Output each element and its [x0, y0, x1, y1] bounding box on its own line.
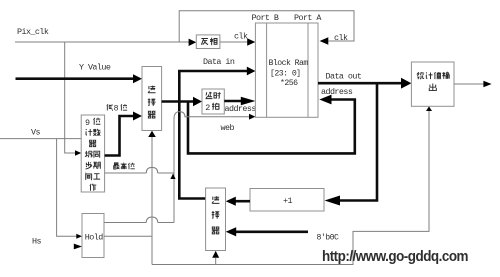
wire selector2 output link to vertical [178, 197, 206, 200]
wire selector U2 select from bottom [215, 258, 217, 265]
wire select vertical down from selector U1 [151, 137, 153, 265]
inverter box [196, 35, 220, 49]
counter text 场同 [85, 151, 92, 158]
wire data-in vertical thick [178, 71, 181, 199]
svg-text:Block Ram: Block Ram [269, 58, 309, 68]
wire +1 output thick [236, 200, 251, 203]
arrow into counter clk [75, 150, 81, 155]
label 最高位 [113, 163, 119, 169]
svg-text:Port B: Port B [252, 13, 279, 23]
arrow into +1 box [325, 196, 341, 206]
svg-text:Hold: Hold [85, 232, 103, 242]
wire Vs branch down to Hold [57, 139, 77, 237]
counter text 间工 [86, 173, 92, 180]
wire Hold middle output [104, 235, 152, 237]
floating arrow Hs into Hold [74, 244, 82, 250]
wire inverter to Port B clk [220, 41, 248, 43]
svg-text:Data in: Data in [203, 57, 235, 67]
wire address branch thick down and around [188, 100, 355, 154]
Hold box [82, 214, 104, 258]
Block Ram inner port lines [267, 23, 308, 117]
svg-text:9: 9 [85, 118, 90, 128]
wire delay output thick [224, 100, 241, 103]
svg-text:8'b0C: 8'b0C [317, 232, 339, 242]
inverter label 反相 [201, 39, 208, 45]
wire 8'b0C thick [236, 231, 308, 234]
arrow into Hold [76, 234, 82, 239]
hop over vertical wire [146, 167, 157, 173]
arrow into Port B clk [247, 38, 255, 46]
svg-text:8: 8 [114, 105, 119, 114]
wire web horizontal [185, 116, 250, 118]
counter text 器 [89, 140, 96, 146]
arrow Data in into Block Ram [247, 67, 256, 76]
stats output box 统计值输出 [411, 62, 454, 106]
wire counter low8 thick to selector [105, 116, 134, 156]
arrow web into Block Ram [249, 114, 255, 120]
counter text 作 [90, 184, 96, 191]
svg-text:*256: *256 [280, 78, 298, 88]
wire Vs horizontal [0, 138, 81, 140]
delay text 延时 [206, 92, 213, 99]
+1 box [250, 189, 324, 212]
svg-text:address: address [321, 87, 353, 97]
svg-text:Data out: Data out [326, 72, 362, 82]
arrow stats output [483, 81, 491, 87]
wire MSB from counter [105, 172, 174, 174]
arrow delay out into Block Ram address [241, 97, 256, 106]
arrow up into selector U2 bottom [212, 251, 219, 258]
wire Pix_clk top loop to Port A clk [179, 11, 354, 42]
svg-text:clk: clk [234, 31, 248, 41]
arrow low8 into selector U1 [133, 112, 142, 121]
selector U1 text 选择器 [148, 86, 155, 93]
delay box 延时2拍 [202, 89, 224, 114]
svg-text:2: 2 [205, 103, 210, 113]
wire selector U1 output thick [162, 100, 194, 103]
wire stats output [454, 83, 484, 85]
svg-text:Port A: Port A [294, 13, 322, 23]
arrow into delay box [193, 97, 202, 106]
selector U2 box [206, 188, 226, 251]
arrow +1 into selector U2 [226, 197, 236, 206]
Block Ram box [255, 23, 318, 117]
arrow Data out into stats box [401, 78, 411, 89]
wire web vertical with hop [173, 119, 175, 223]
wire Pix_clk branch down to counter clk [65, 42, 76, 153]
svg-text:+1: +1 [283, 196, 292, 206]
selector U2 text 选择器 [212, 196, 219, 203]
arrow up into selector U1 bottom [148, 131, 156, 137]
svg-text:Vs: Vs [31, 127, 40, 137]
wire Hold top output with hop [104, 210, 174, 223]
svg-text:clk: clk [334, 33, 348, 43]
wire Y Value thick [16, 77, 135, 80]
arrow into inverter [189, 39, 197, 46]
counter text 步期 [86, 162, 92, 169]
svg-text:http://www.go-gddq.com: http://www.go-gddq.com [322, 249, 469, 265]
counter text 计数 [86, 129, 92, 136]
hop over select wire [146, 217, 157, 223]
selector U1 box [142, 67, 162, 131]
stats text 出 [429, 84, 436, 91]
arrow into Port A clk [320, 37, 329, 45]
svg-text:web: web [221, 123, 235, 133]
arrow address into Block Ram right [319, 95, 331, 105]
arrow up into stats box bottom [426, 106, 432, 111]
wire Pix_clk horizontal [15, 41, 189, 43]
hop over thick vertical [174, 112, 185, 119]
arrow marker on web wire [170, 174, 175, 179]
counter box 9-bit [81, 115, 104, 192]
svg-text:Hs: Hs [32, 236, 41, 246]
arrow 8'b0C into selector U2 [226, 227, 237, 236]
wire Data out thick [318, 82, 402, 85]
stats text 统计值输 [417, 72, 424, 79]
svg-text:Y Value: Y Value [79, 62, 111, 72]
wire select bottom run [152, 111, 429, 265]
svg-text:address: address [225, 104, 257, 114]
svg-text:[23: 0]: [23: 0] [270, 68, 301, 78]
label 低8位 [107, 104, 113, 110]
wire Data in horizontal thick [178, 70, 248, 73]
svg-text:Pix_clk: Pix_clk [17, 27, 49, 37]
wire Data out branch down to +1 [339, 83, 377, 200]
arrow Y Value into selector U1 [133, 74, 142, 83]
